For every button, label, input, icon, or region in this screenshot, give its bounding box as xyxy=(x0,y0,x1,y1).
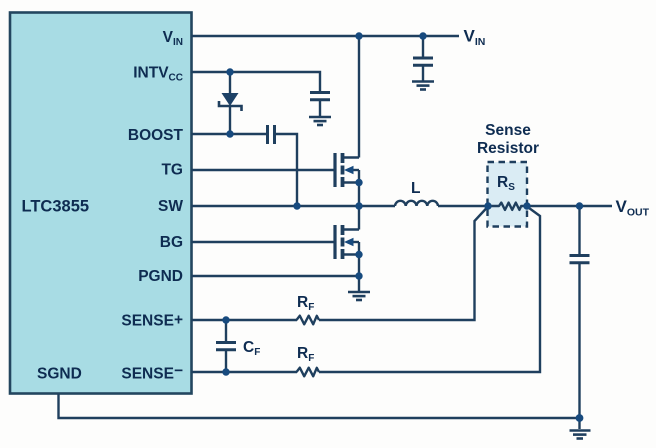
node BOOST / zener junction xyxy=(226,130,233,137)
sense resistor RS dashed box xyxy=(488,162,528,227)
node RS left pad junction xyxy=(484,202,491,209)
wire VOUT node to output cap xyxy=(578,206,580,255)
node VOUT / output cap junction xyxy=(576,202,583,209)
node SW / boost cap junction xyxy=(293,202,300,209)
wire input cap to ground xyxy=(422,65,424,81)
wire zener to INTVCC and BOOST xyxy=(229,72,231,93)
svg-text:L: L xyxy=(411,180,420,197)
svg-text:SGND: SGND xyxy=(37,366,82,383)
ground symbol at SGND rail xyxy=(570,431,591,439)
node VIN rail / Q1 drain junction xyxy=(355,32,362,39)
wire VIN pin to VIN terminal xyxy=(192,35,460,37)
transistor Q1 top NMOS xyxy=(335,153,359,187)
wire Q1 source to SW rail xyxy=(358,183,360,207)
svg-text:LTC3855: LTC3855 xyxy=(22,198,90,216)
wire CF cap top lead xyxy=(225,320,227,342)
node SW / Q1 source Q2 drain junction xyxy=(355,202,362,209)
node RS right pad junction xyxy=(523,202,530,209)
node SGND rail / ground junction xyxy=(576,414,584,422)
capacitor C-OUT plates xyxy=(570,256,590,263)
node SENSE- / CF junction xyxy=(222,368,229,375)
resistor RF bottom zigzag xyxy=(297,368,320,377)
svg-text:RF: RF xyxy=(297,345,314,364)
svg-text:VIN: VIN xyxy=(464,27,486,49)
node PGND junction xyxy=(355,272,362,279)
wire Q1 drain to VIN rail xyxy=(358,36,360,158)
wire zener cathode to BOOST line xyxy=(229,106,231,134)
wire Q2 source to PGND and ground xyxy=(358,255,360,292)
node INTVCC / zener junction xyxy=(226,68,233,75)
wire BG pin to Q2 gate xyxy=(192,241,336,243)
node Q1 body-source junction xyxy=(355,179,362,186)
wire PGND pin to Q2 source node xyxy=(192,275,360,277)
wire INTVCC pin to bypass cap xyxy=(192,72,321,92)
wire VIN rail to input cap xyxy=(422,36,424,58)
svg-text:CF: CF xyxy=(243,339,260,358)
resistor RS zigzag xyxy=(488,203,527,210)
resistor RF top zigzag xyxy=(297,316,320,325)
wire CF cap bottom lead xyxy=(225,350,227,372)
wire inductor to sense resistor xyxy=(438,205,499,207)
wire INTVCC cap to ground xyxy=(319,100,321,117)
zener diode D1 xyxy=(219,93,242,111)
capacitor INTVCC bypass plates xyxy=(310,93,330,100)
svg-text:Sense: Sense xyxy=(485,122,531,139)
wire SENSE- pin to RS right pad xyxy=(192,371,298,373)
svg-text:SENSE−: SENSE− xyxy=(121,363,183,383)
ground symbol at input cap xyxy=(412,82,434,90)
capacitor CF plates xyxy=(216,343,236,350)
svg-text:Resistor: Resistor xyxy=(477,140,539,157)
wire sense resistor to VOUT terminal xyxy=(520,205,612,207)
capacitor C-BOOST plates xyxy=(268,125,275,144)
svg-text:BG: BG xyxy=(160,234,183,251)
wire SW pin to inductor xyxy=(192,205,396,207)
transistor Q2 bottom NMOS xyxy=(335,225,359,259)
wire output cap to SGND rail xyxy=(578,263,580,419)
wire BOOST pin to boost cap xyxy=(192,133,267,135)
wire SGND ground stub xyxy=(578,418,580,429)
svg-text:BOOST: BOOST xyxy=(128,127,184,144)
IC U1 LTC3855 block xyxy=(10,13,192,394)
svg-text:SENSE+: SENSE+ xyxy=(121,312,183,330)
wire TG pin to Q1 gate xyxy=(192,169,336,171)
wire SGND pin to ground rail xyxy=(59,394,580,418)
inductor L xyxy=(395,201,438,206)
wire Q2 drain to SW rail xyxy=(358,206,360,230)
wire boost cap to SW node xyxy=(276,134,297,206)
ground symbol at INTVCC cap xyxy=(309,117,331,125)
svg-text:TG: TG xyxy=(161,162,183,179)
node VIN rail / input cap junction xyxy=(419,32,426,39)
svg-text:SW: SW xyxy=(158,198,183,215)
ground symbol at Q2 source xyxy=(348,292,370,300)
svg-text:VOUT: VOUT xyxy=(616,197,650,219)
svg-text:RF: RF xyxy=(297,294,314,313)
node SENSE+ / CF junction xyxy=(222,316,229,323)
node Q2 body-source junction xyxy=(355,251,362,258)
wire SENSE+ pin to RS left pad xyxy=(192,319,298,321)
svg-text:PGND: PGND xyxy=(138,268,183,285)
capacitor C-IN plates xyxy=(413,58,433,65)
